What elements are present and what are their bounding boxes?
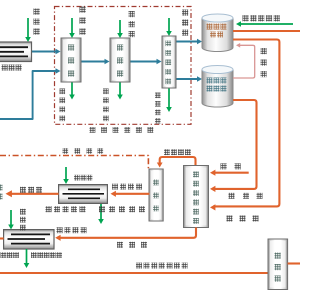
arrow: cooling circulation out of reactor bottom [117, 82, 123, 100]
bleaching tower [149, 169, 163, 221]
arrow: cooling water into separator [166, 18, 172, 36]
arrow: preheat water into preheater [69, 18, 75, 38]
wire: nitric acid iso-octyl ester product line [0, 272, 268, 274]
wire: separator to by-product acid buffer tank [176, 76, 203, 82]
label: unit title below box [90, 127, 154, 133]
label: recovered acid [261, 48, 267, 77]
wire: nitric acid vapor bridge denitration->bleaching tower [157, 157, 196, 168]
by-product acid buffer tank (cylinder) [202, 66, 233, 108]
label: dilute sulfuric acid [117, 242, 147, 248]
wire: by-product acid from buffer tank to denitration column [210, 100, 257, 192]
label: nitric acid vapor (bridge) [164, 149, 191, 155]
label: cooling water (cooler2) [20, 209, 26, 231]
label: by-product acid [229, 193, 263, 199]
by-product acid denitration tower [184, 166, 209, 228]
label: nitric acid iso-octyl ester product [136, 263, 188, 269]
label: clipped left-edge tank label [0, 185, 3, 200]
wire: dilute sulfuric acid from denitration tower bottom to cooler [55, 228, 196, 241]
label: cooling water (cooler top) [74, 175, 92, 181]
label: exchanger [2, 65, 22, 71]
label: cooling circulation (separator) [155, 93, 161, 124]
label: nitric acid vapor (into cooler) [112, 184, 142, 190]
label: cooler [1, 252, 19, 258]
dashed battery-limit box (mass&heat transfer unit) [55, 7, 192, 125]
label: cooling water (reactor) [129, 11, 135, 37]
label: non-condensable gas [63, 148, 104, 154]
arrow: cooling circulation out of separator bottom [166, 88, 172, 112]
wire: feed from left edge up into preheater [0, 68, 61, 119]
cooler (bottom-left condenser) [4, 230, 54, 249]
label: concentrated nitric acid [20, 187, 42, 193]
arrow: nitric acid vapor from bleaching tower into cooler [111, 191, 150, 197]
label: cooling circulation (reactor) [103, 89, 109, 122]
wire: recovered acid from buffer tank up into wash tank (pink) [233, 43, 255, 78]
wire: wash tank acid-water line down to denitration column [210, 40, 279, 211]
label: cooling water (exchanger) [34, 9, 40, 35]
wire: exchanger outlet to preheater [31, 49, 61, 55]
arrow: cooling water into nitric acid cooler [63, 167, 69, 184]
dryer vessel [268, 239, 288, 290]
reactor vessel [110, 38, 130, 82]
arrow: preheat circulation out of preheater bottom [69, 82, 75, 100]
arrow: cooling circulation water out of cooler bottom [98, 204, 104, 224]
ester separator column [162, 36, 176, 88]
label: cooling circulation water (cooler) [99, 206, 145, 212]
arrow: cooling water into cooler top [8, 210, 14, 230]
wire: wash tank overflow to right edge [233, 30, 300, 32]
wire: reactor to separator [130, 59, 162, 65]
label: nitric acid vapor (cooler side) [57, 227, 87, 233]
label: cooling circulation water (cooler2) [31, 252, 62, 258]
dash-dot line: non-condensable gas header [0, 156, 148, 170]
label: nitric acid cooler [46, 206, 86, 212]
heat exchanger HX1 (top-left) [0, 42, 32, 62]
wire: condensate stub out left of cooler [0, 237, 4, 239]
label: alkali-water mixture [243, 15, 280, 21]
arrow: cooling water into reactor [117, 20, 123, 38]
nitric acid cooler (condenser) [59, 185, 108, 204]
label: steam [221, 163, 241, 169]
preheater vessel [61, 38, 81, 82]
arrow: alkali-water mixture into wash tank [236, 21, 293, 27]
arrow: cooling circulation out of cooler2 bottom [24, 249, 30, 268]
arrow: steam into denitration column [210, 170, 249, 176]
arrow: concentrated nitric acid out to left [6, 190, 59, 197]
wire: dryer outlet to right edge [288, 262, 300, 264]
crude ester wash tank (cylinder) [202, 14, 233, 52]
label: preheat water [80, 7, 86, 35]
wire: separator to crude ester wash tank [176, 39, 203, 45]
label: preheat circulation [60, 89, 66, 122]
label: acidic water [227, 216, 259, 222]
label: cooling water (separator) [182, 10, 188, 36]
wire: preheater to reactor [81, 59, 110, 65]
arrow: cooling water into exchanger [25, 18, 31, 42]
